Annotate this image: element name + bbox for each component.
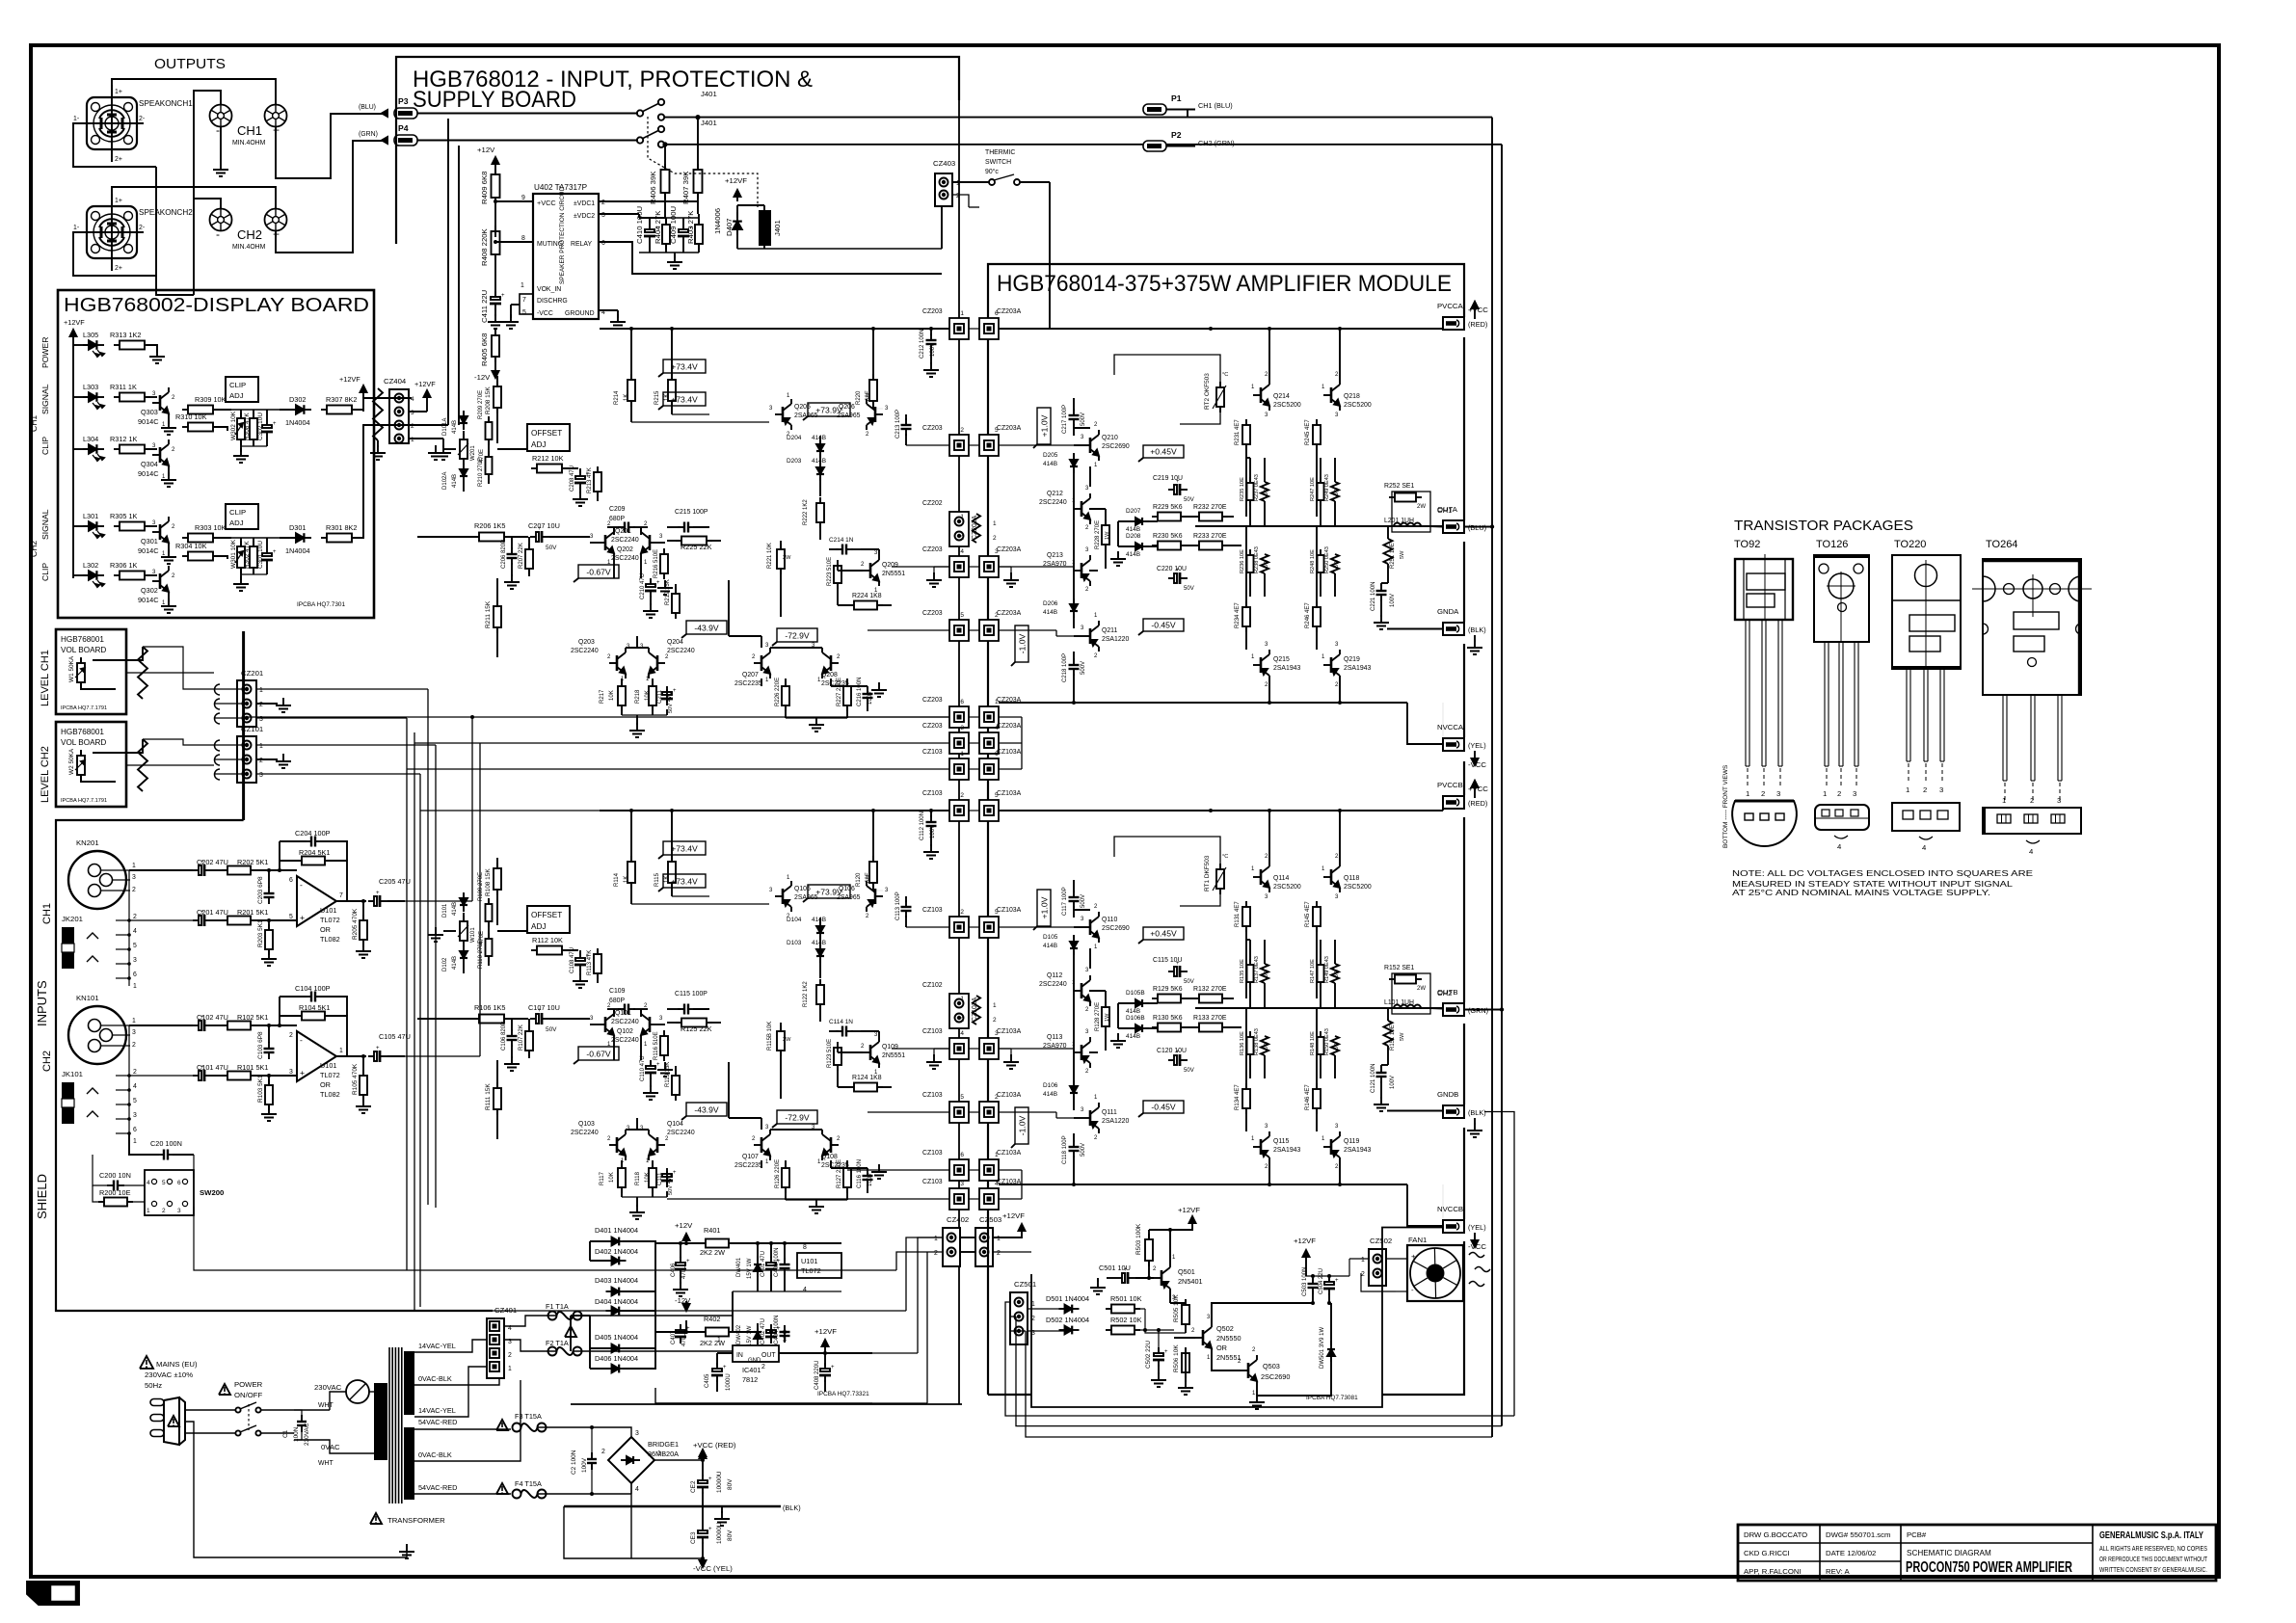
svg-text:100V: 100V <box>1390 594 1396 607</box>
display wires to CZ404 <box>363 398 412 410</box>
svg-text:Q119: Q119 <box>1344 1138 1359 1145</box>
svg-text:C214 1N: C214 1N <box>829 537 854 544</box>
svg-text:-VCC (YEL): -VCC (YEL) <box>693 1564 733 1573</box>
svg-text:Q207: Q207 <box>742 672 759 678</box>
svg-text:2W: 2W <box>1417 504 1426 510</box>
svg-text:DRW G.BOCCATO: DRW G.BOCCATO <box>1744 1530 1807 1539</box>
svg-text:+: + <box>200 1015 204 1021</box>
fan drive wires <box>1028 1308 1064 1310</box>
svg-text:D102: D102 <box>442 957 448 971</box>
input stage top rail <box>600 810 949 811</box>
svg-text:C205 47U: C205 47U <box>379 877 411 886</box>
transformer primary bar <box>374 1383 387 1460</box>
svg-text:1: 1 <box>133 1138 137 1145</box>
svg-text:5W: 5W <box>1400 1032 1405 1041</box>
svg-text:2SC2240: 2SC2240 <box>571 648 599 654</box>
svg-text:VOL BOARD: VOL BOARD <box>61 738 106 747</box>
feedback wires <box>279 841 280 870</box>
svg-text:+73.4V: +73.4V <box>671 362 698 372</box>
transformer secondary bars <box>404 1351 414 1415</box>
svg-text:D106: D106 <box>1043 1082 1058 1089</box>
svg-text:TL072: TL072 <box>320 916 340 924</box>
svg-text:R150 0E43: R150 0E43 <box>1324 1028 1330 1055</box>
svg-text:1N4006: 1N4006 <box>713 208 722 234</box>
svg-text:Q112: Q112 <box>1047 972 1062 979</box>
input pin ladder <box>128 870 130 986</box>
svg-text:414B: 414B <box>452 956 458 970</box>
svg-text:Q203: Q203 <box>578 639 595 646</box>
connector CZ103 <box>949 1188 969 1210</box>
svg-text:1: 1 <box>960 514 964 520</box>
svg-text:8: 8 <box>521 235 525 242</box>
svg-text:C404 100N: C404 100N <box>774 1316 780 1344</box>
svg-text:9014C: 9014C <box>138 596 159 604</box>
svg-text:CZ404: CZ404 <box>384 377 407 386</box>
svg-text:-VCC: -VCC <box>537 310 553 317</box>
svg-text:CZ203: CZ203 <box>922 723 943 730</box>
svg-text:2: 2 <box>761 1364 765 1370</box>
svg-text:(GRN): (GRN) <box>1468 1006 1488 1015</box>
svg-text:U101: U101 <box>320 1061 336 1070</box>
callout -72.9V <box>777 628 817 642</box>
connector CZ103A <box>979 800 999 821</box>
svg-text:R226 220E: R226 220E <box>775 678 781 706</box>
svg-text:3: 3 <box>635 1430 639 1437</box>
svg-text:+VCC (RED): +VCC (RED) <box>693 1441 736 1450</box>
module stubs from CZ203A CH1 <box>998 328 1000 330</box>
svg-text:500V: 500V <box>1081 661 1086 675</box>
input board stubs to connectors CH1 <box>873 328 949 330</box>
connector CZ103 <box>949 1159 969 1181</box>
svg-text:JK201: JK201 <box>62 915 83 923</box>
svg-text:CZ103: CZ103 <box>922 1150 943 1157</box>
svg-text:R208 15K: R208 15K <box>485 386 492 414</box>
svg-text:R235 10E: R235 10E <box>1240 477 1245 501</box>
svg-text:3: 3 <box>133 957 137 964</box>
mains label <box>140 1356 153 1369</box>
op-amp U101 <box>297 1031 336 1081</box>
svg-text:C217 100P: C217 100P <box>1062 405 1068 434</box>
svg-text:2: 2 <box>1923 785 1927 794</box>
svg-text:36MB20A: 36MB20A <box>648 1450 679 1458</box>
svg-text:2-: 2- <box>139 116 145 122</box>
svg-text:14VAC-YEL: 14VAC-YEL <box>418 1406 456 1415</box>
svg-text:1: 1 <box>521 282 524 289</box>
wire CH2 GRN to module <box>1501 145 1503 1426</box>
svg-text:2: 2 <box>133 1069 137 1076</box>
connector CZ203A <box>979 706 999 728</box>
svg-text:Q212: Q212 <box>1047 491 1063 497</box>
svg-text:2SC2240: 2SC2240 <box>611 537 639 544</box>
svg-text:-0.45V: -0.45V <box>1151 621 1176 630</box>
svg-text:0VAC-BLK: 0VAC-BLK <box>418 1450 452 1459</box>
transistor Q218 2SC5200 <box>1330 387 1333 403</box>
svg-text:C220 10U: C220 10U <box>1157 566 1187 572</box>
svg-text:R247 10E: R247 10E <box>1310 477 1316 501</box>
svg-text:R233 270E: R233 270E <box>1193 533 1227 540</box>
svg-text:1: 1 <box>657 1450 661 1457</box>
svg-text:PCB#: PCB# <box>1907 1530 1927 1539</box>
svg-text:TO126: TO126 <box>1816 539 1848 550</box>
svg-text:R105 470K: R105 470K <box>352 1063 359 1095</box>
svg-text:414B: 414B <box>812 435 826 441</box>
svg-text:L303: L303 <box>83 383 98 391</box>
wire -post CH2 <box>194 199 221 209</box>
preamp wires <box>129 869 193 871</box>
svg-text:R506 10K: R506 10K <box>1173 1344 1180 1372</box>
rail +73.4V wires <box>631 903 769 905</box>
svg-text:R215: R215 <box>654 390 660 405</box>
svg-text:TO264: TO264 <box>1986 539 2017 550</box>
svg-text:R401: R401 <box>704 1226 720 1235</box>
svg-text:2N5551: 2N5551 <box>882 571 905 577</box>
svg-text:CH2: CH2 <box>29 541 39 557</box>
svg-text:+12VF: +12VF <box>725 176 747 185</box>
svg-text:C212 100N: C212 100N <box>920 330 925 359</box>
svg-text:1: 1 <box>1906 785 1909 794</box>
connector CZ103A <box>979 917 999 938</box>
svg-text:INPUTS: INPUTS <box>35 980 49 1026</box>
svg-text:R212 10K: R212 10K <box>532 454 564 463</box>
svg-text:R249 0E43: R249 0E43 <box>1324 474 1330 501</box>
svg-text:R227 220E: R227 220E <box>837 678 842 706</box>
vol bus verticals <box>406 718 408 1270</box>
svg-text:CZ203A: CZ203A <box>997 308 1022 315</box>
mid rails to connectors <box>244 716 949 718</box>
connector CZ103A <box>979 1102 999 1123</box>
callout -43.9V <box>686 621 727 634</box>
svg-text:1: 1 <box>934 1236 938 1242</box>
svg-text:±VDC2: ±VDC2 <box>574 213 595 220</box>
svg-text:+: + <box>708 1527 712 1532</box>
callout +73.4V b <box>663 874 706 888</box>
transistor Q113 2SA970 <box>1081 1045 1083 1060</box>
svg-text:°C: °C <box>1222 854 1228 860</box>
svg-text:Q218: Q218 <box>1344 393 1360 400</box>
wire VDC2 <box>599 213 639 215</box>
callout +73.9V <box>808 885 850 898</box>
svg-text:R149 0E43: R149 0E43 <box>1324 956 1330 983</box>
svg-text:PROCON750 POWER AMPLIFIER: PROCON750 POWER AMPLIFIER <box>1906 1559 2072 1576</box>
transistor Q111 2SA1220 <box>1089 1110 1092 1126</box>
svg-text:CH2: CH2 <box>1437 989 1452 998</box>
svg-text:IC401: IC401 <box>742 1366 761 1374</box>
callout +73.9V <box>808 403 850 416</box>
fuse F3 T15A <box>496 1420 508 1430</box>
svg-text:9014C: 9014C <box>138 546 159 555</box>
svg-text:3: 3 <box>259 772 263 779</box>
svg-text:DWG# 550701.scm: DWG# 550701.scm <box>1826 1530 1891 1539</box>
svg-text:1: 1 <box>2002 796 2006 805</box>
svg-text:8: 8 <box>803 1244 807 1251</box>
svg-text:2: 2 <box>289 1032 293 1039</box>
callout -1.0V <box>1015 625 1028 662</box>
svg-text:470U: 470U <box>681 1265 687 1279</box>
svg-text:2: 2 <box>997 1250 1001 1257</box>
ground outputs <box>220 126 222 162</box>
svg-text:414B: 414B <box>1126 551 1140 558</box>
svg-text:DISCHRG: DISCHRG <box>537 298 568 305</box>
svg-text:J401: J401 <box>701 90 717 98</box>
svg-text:R405 6K8: R405 6K8 <box>480 333 489 366</box>
svg-text:2: 2 <box>995 612 999 619</box>
svg-text:CZ203: CZ203 <box>922 546 943 553</box>
CZ101 wires <box>256 744 436 746</box>
transistor Q303 9014C <box>147 396 157 398</box>
ground CZ103A-3 <box>999 1048 1011 1050</box>
wire CH1 BLU to module <box>1491 118 1493 1437</box>
svg-text:Q208: Q208 <box>821 672 838 678</box>
svg-text:+: + <box>538 526 542 532</box>
svg-text:-: - <box>216 227 220 241</box>
svg-text:C301 10U: C301 10U <box>257 541 264 569</box>
svg-text:R228 270E: R228 270E <box>1095 520 1101 549</box>
svg-text:R147 10E: R147 10E <box>1310 959 1316 983</box>
svg-text:14VAC-YEL: 14VAC-YEL <box>418 1342 456 1350</box>
connector CZ203 <box>949 732 969 754</box>
connector CZ203 <box>949 318 969 339</box>
svg-text:NOTE: ALL DC VOLTAGES ENCLOSED: NOTE: ALL DC VOLTAGES ENCLOSED INTO SQUA… <box>1732 869 2033 878</box>
svg-text:2: 2 <box>960 427 964 434</box>
BLK ground bus <box>702 1492 704 1506</box>
svg-text:Q202: Q202 <box>617 546 633 553</box>
transistor Q211 2SA1220 <box>1089 628 1092 644</box>
svg-text:+12VF: +12VF <box>64 318 85 327</box>
svg-text:GENERALMUSIC S.p.A. ITALY: GENERALMUSIC S.p.A. ITALY <box>2099 1530 2203 1541</box>
svg-text:°C: °C <box>1222 372 1228 378</box>
svg-text:OR: OR <box>320 925 331 934</box>
opamp supply box U101 TL072 <box>797 1253 841 1278</box>
svg-text:C116 100N: C116 100N <box>857 1159 863 1188</box>
svg-text:+: + <box>1411 1252 1416 1261</box>
svg-text:R248 10E: R248 10E <box>1310 549 1316 573</box>
connector CZ203 <box>949 435 969 456</box>
svg-text:LEVEL CH1: LEVEL CH1 <box>40 650 51 706</box>
svg-text:414B: 414B <box>1043 943 1057 949</box>
svg-text:F1 T1A: F1 T1A <box>546 1302 569 1311</box>
svg-text:Q204: Q204 <box>667 639 683 646</box>
svg-text:-0.45V: -0.45V <box>1151 1103 1176 1112</box>
transistor Q206 2SA965 <box>874 407 877 422</box>
svg-text:R128 270E: R128 270E <box>1095 1002 1101 1031</box>
svg-text:2-: 2- <box>139 225 145 231</box>
svg-text:W201: W201 <box>470 445 476 461</box>
svg-text:SUPPLY BOARD: SUPPLY BOARD <box>413 87 576 113</box>
transistor Q119 2SA1943 <box>1330 1139 1333 1155</box>
corner fold icon <box>27 1582 79 1605</box>
ground CZ203A-3 <box>999 566 1011 568</box>
svg-text:2SA1943: 2SA1943 <box>1344 665 1371 672</box>
thick wire vol bus <box>242 631 245 820</box>
amp module outline <box>988 264 1464 1395</box>
svg-text:R230 5K6: R230 5K6 <box>1153 533 1183 540</box>
callout -1.0V <box>1015 1107 1028 1144</box>
svg-text:2SA1220: 2SA1220 <box>1102 1118 1129 1125</box>
callout +0.45V <box>1143 927 1184 940</box>
svg-text:Q502: Q502 <box>1216 1324 1234 1333</box>
connector CZ103A <box>979 1159 999 1181</box>
svg-text:D402 1N4004: D402 1N4004 <box>595 1247 638 1256</box>
svg-text:F4 T15A: F4 T15A <box>515 1479 542 1488</box>
svg-text:4: 4 <box>960 1030 964 1037</box>
svg-text:50V: 50V <box>546 1026 557 1033</box>
svg-text:-: - <box>1411 1286 1414 1294</box>
SW200 ground switch <box>145 1170 194 1215</box>
svg-text:1: 1 <box>508 1366 512 1372</box>
svg-text:Q118: Q118 <box>1344 875 1359 882</box>
svg-text:-43.9V: -43.9V <box>694 1105 719 1115</box>
svg-text:3: 3 <box>1939 785 1943 794</box>
svg-text:(YEL): (YEL) <box>1468 741 1486 750</box>
svg-text:54VAC-RED: 54VAC-RED <box>418 1418 457 1426</box>
svg-text:6: 6 <box>133 971 137 978</box>
svg-text:C215 100P: C215 100P <box>675 509 708 516</box>
svg-text:R109 270E: R109 270E <box>478 872 484 901</box>
svg-text:2: 2 <box>133 914 137 920</box>
svg-text:(YEL): (YEL) <box>1468 1223 1486 1232</box>
transistor Q104 2SC2240 <box>656 1137 659 1153</box>
relay J401 coil <box>759 210 771 246</box>
svg-text:+: + <box>1176 568 1180 573</box>
svg-text:+73.9V: +73.9V <box>815 888 842 897</box>
mains plug <box>164 1397 179 1445</box>
svg-text:414B: 414B <box>452 474 458 488</box>
svg-text:3: 3 <box>289 1069 293 1076</box>
svg-text:6: 6 <box>960 699 964 705</box>
svg-text:50V: 50V <box>1184 497 1194 503</box>
svg-text:R124 1K8: R124 1K8 <box>852 1075 882 1081</box>
svg-text:Q115: Q115 <box>1273 1138 1289 1145</box>
svg-text:414B: 414B <box>1043 1091 1057 1098</box>
connector CZ203 <box>949 556 969 577</box>
svg-text:-: - <box>300 880 303 890</box>
svg-text:R151 10E: R151 10E <box>1390 1024 1396 1051</box>
svg-text:+: + <box>273 421 277 427</box>
svg-text:APP, R.FALCONI: APP, R.FALCONI <box>1744 1567 1802 1576</box>
svg-text:OUT: OUT <box>761 1352 776 1359</box>
svg-text:FAN1: FAN1 <box>1408 1236 1427 1244</box>
svg-text:+: + <box>200 910 204 916</box>
svg-text:CZ103: CZ103 <box>922 790 943 797</box>
svg-text:80V: 80V <box>727 1530 734 1541</box>
svg-text:SWITCH: SWITCH <box>985 159 1011 166</box>
svg-text:D406 1N4004: D406 1N4004 <box>595 1354 638 1363</box>
svg-text:OR: OR <box>320 1080 331 1089</box>
svg-text:CH1 (BLU): CH1 (BLU) <box>1198 101 1233 110</box>
callout -43.9V <box>686 1103 727 1116</box>
OUTA stub to BLU vertical <box>1464 526 1492 528</box>
svg-text:+12V: +12V <box>675 1221 693 1230</box>
svg-text:+: + <box>376 891 380 896</box>
svg-text:HGB768001: HGB768001 <box>61 728 104 736</box>
svg-text:4: 4 <box>635 1486 639 1493</box>
regulator rails <box>590 1240 611 1242</box>
svg-text:R229 5K6: R229 5K6 <box>1153 504 1183 511</box>
svg-text:Q215: Q215 <box>1273 656 1290 663</box>
svg-text:DATE 12/06/02: DATE 12/06/02 <box>1826 1549 1876 1557</box>
svg-text:CLIP: CLIP <box>229 381 246 389</box>
svg-text:2N5551: 2N5551 <box>882 1052 905 1059</box>
svg-text:+: + <box>1176 479 1180 485</box>
transistor Q109 2N5551 <box>869 1045 872 1060</box>
svg-text:5: 5 <box>133 943 137 949</box>
connector CZ103A <box>979 1188 999 1210</box>
svg-text:C410 100U: C410 100U <box>635 206 644 244</box>
mains earth wire <box>185 1422 407 1557</box>
svg-text:CZ102: CZ102 <box>922 982 943 989</box>
rail +73.4V wires <box>631 421 769 423</box>
svg-text:+: + <box>723 1365 727 1370</box>
svg-text:414B: 414B <box>1043 461 1057 467</box>
svg-text:+12VF: +12VF <box>1002 1211 1025 1220</box>
wire speakon1 1+ to +post <box>112 79 276 105</box>
svg-text:2W: 2W <box>1417 986 1426 992</box>
module bottom rail <box>999 702 1407 704</box>
svg-text:HGB768002-DISPLAY BOARD: HGB768002-DISPLAY BOARD <box>64 295 369 316</box>
svg-text:CZ203A: CZ203A <box>997 425 1022 432</box>
svg-text:IPCBA HQ7.7301: IPCBA HQ7.7301 <box>297 601 346 608</box>
svg-text:D106B: D106B <box>1126 1015 1145 1022</box>
op-amp U101 <box>297 876 336 926</box>
preamp out vertical CH2 <box>405 1055 480 1057</box>
svg-text:CLIP: CLIP <box>40 563 50 581</box>
svg-text:R402: R402 <box>704 1315 720 1323</box>
svg-text:50V: 50V <box>546 545 557 551</box>
svg-text:RELAY: RELAY <box>571 241 592 248</box>
svg-text:ADJ: ADJ <box>531 922 546 931</box>
svg-text:1: 1 <box>147 1208 150 1214</box>
svg-text:R246 4E7: R246 4E7 <box>1305 602 1311 628</box>
connector CZ103 <box>949 1102 969 1123</box>
svg-text:3: 3 <box>132 874 136 881</box>
svg-text:DW501 3V9 1W: DW501 3V9 1W <box>1320 1327 1325 1369</box>
svg-text:2: 2 <box>995 1094 999 1101</box>
transistor Q215 2SA1943 <box>1260 657 1263 673</box>
svg-text:R152 SE1: R152 SE1 <box>1384 965 1415 971</box>
transistor Q501 2N5401 <box>1161 1270 1163 1286</box>
svg-text:C302 10U: C302 10U <box>257 412 264 440</box>
U402 pin7 notch <box>520 294 533 314</box>
svg-text:+: + <box>300 1068 305 1078</box>
relay wire to CZ403 <box>941 193 943 249</box>
svg-text:Q102: Q102 <box>617 1028 633 1035</box>
transistor Q112 2SC2240 <box>1081 983 1083 998</box>
svg-text:NVCCB: NVCCB <box>1437 1205 1463 1213</box>
svg-text:C105 47U: C105 47U <box>379 1032 411 1041</box>
svg-text:C112 100N: C112 100N <box>920 811 925 840</box>
svg-text:CE2: CE2 <box>690 1480 697 1493</box>
svg-text:3: 3 <box>960 725 964 732</box>
supply board bottom edge <box>571 1403 962 1405</box>
svg-text:1: 1 <box>132 1018 136 1024</box>
svg-text:4: 4 <box>133 928 137 935</box>
svg-text:C104 100P: C104 100P <box>295 984 331 993</box>
power switch <box>185 1409 235 1411</box>
svg-text:HGB768001: HGB768001 <box>61 635 104 644</box>
svg-text:CZ103: CZ103 <box>922 1092 943 1099</box>
svg-text:D101: D101 <box>442 903 448 918</box>
svg-text:50V: 50V <box>668 704 674 713</box>
binding post CH1 plus <box>265 105 287 127</box>
transistor Q115 2SA1943 <box>1260 1139 1263 1155</box>
svg-text:2K2 2W: 2K2 2W <box>700 1339 725 1347</box>
secondary wires <box>414 1340 491 1352</box>
svg-text:2+: 2+ <box>115 156 122 163</box>
svg-text:R236 10E: R236 10E <box>1240 549 1245 573</box>
svg-text:CZ203A: CZ203A <box>997 723 1022 730</box>
transistor Q101 2SC2240 pair Q102 <box>604 1017 607 1032</box>
svg-text:2: 2 <box>960 535 964 542</box>
